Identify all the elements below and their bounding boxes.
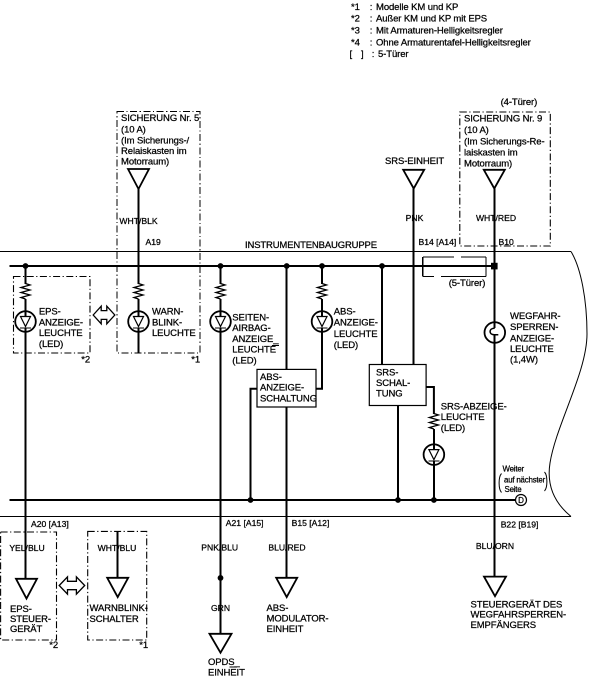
resistor ABS-ANZEIGE [318,284,327,300]
wire EPS LED down to lower bus [25,328,27,579]
svg-text:(5-Türer): (5-Türer) [449,278,486,289]
svg-text::: : [372,49,375,60]
WEGFAHRSPERREN lamp label [510,311,560,365]
svg-text:5-Türer: 5-Türer [378,49,408,60]
wire SRS box right to SRS-ABZEIGE branch [426,387,434,414]
continuation note (Weiter auf naechster Seite) [499,465,547,494]
WARNBLINK-SCHALTER label [90,603,148,625]
STEUERGERAET DES WEGFAHRSPERREN-EMPFAENGERS label [471,599,567,631]
svg-text::: : [370,14,373,25]
fuse box F9 (dash-dot) [460,112,551,246]
svg-text:*3: *3 [351,26,360,37]
wire SRS-ABZEIGE LED to lower bus [433,461,435,500]
instrument cluster bottom border [0,516,571,518]
wire resistor to LED [433,429,435,450]
svg-text:ANZEIGE-: ANZEIGE- [510,334,554,345]
svg-text::: : [370,2,373,13]
SEITEN-AIRBAG label [232,313,279,367]
svg-text:BLINK-: BLINK- [152,317,182,328]
junction dot OPDS [218,575,224,581]
svg-text:(4-Türer): (4-Türer) [501,97,538,108]
upper bus [10,265,496,267]
svg-text:SEITEN-: SEITEN- [232,313,269,324]
SRS-ABZEIGE label [441,401,507,434]
svg-text:]: ] [361,49,364,60]
svg-text:SPERREN-: SPERREN- [510,322,558,333]
svg-text:LEUCHTE: LEUCHTE [232,345,276,356]
junction dot SEITEN-AIRBAG [218,263,224,269]
wire bus to ABS-ANZEIGE-SCHALTUNG box [286,266,288,369]
svg-text::: : [370,37,373,48]
EPS-ANZEIGE-LEUCHTE label [39,307,83,350]
svg-text:INSTRUMENTENBAUGRUPPE: INSTRUMENTENBAUGRUPPE [245,240,377,251]
svg-text:Relaiskasten im: Relaiskasten im [121,146,187,157]
svg-text:B10: B10 [499,237,515,247]
svg-text:GERÄT: GERÄT [10,624,43,635]
svg-text:PNK/BLU: PNK/BLU [201,543,238,553]
LED SRS-ABZEIGE [424,444,445,465]
svg-text:WHT/RED: WHT/RED [476,213,516,223]
svg-text:ANZEIGE_: ANZEIGE_ [232,334,279,345]
svg-text:EPS-: EPS- [39,307,61,318]
svg-text:(LED): (LED) [441,423,465,434]
OPDS connector triangle [210,634,232,653]
svg-text:*2: *2 [81,355,90,366]
svg-text:B14 [A14]: B14 [A14] [419,237,457,247]
svg-text:LEUCHTE: LEUCHTE [334,329,378,340]
wire ABS box bottom to B15 [286,407,288,578]
wire bus to SEITEN resistor [220,266,222,284]
svg-text:(10 A): (10 A) [121,125,146,136]
fuse F9 label [464,114,545,170]
wire fuse F5 to bus [138,189,140,284]
WARN-BLINK-LEUCHTE label [152,307,196,340]
svg-text:(Im Sicherungs-Re-: (Im Sicherungs-Re- [464,137,545,148]
svg-text:Motorraum): Motorraum) [464,159,512,170]
resistor WARN-BLINK [134,284,143,300]
ABS-ANZEIGE-SCHALTUNG box [257,369,316,407]
junction dot ABS box left wire [248,497,254,503]
svg-text:Ohne Armaturentafel-Helligkeit: Ohne Armaturentafel-Helligkeitsregler [376,37,531,48]
svg-text:LEUCHTE: LEUCHTE [510,344,554,355]
OPDS EINHEIT label [208,657,245,678]
junction dot ABS box feed [284,263,290,269]
svg-text:B22 [B19]: B22 [B19] [501,520,539,530]
wire WARN LED to box bottom [138,328,140,353]
fuse box F5 (dash-dot) [117,112,200,354]
interchange arrow bottom [59,577,84,594]
interchange arrow top [93,306,115,324]
svg-text:GRN: GRN [211,603,230,613]
legend note block [350,2,531,60]
WARNBLINK connector triangle [107,578,128,597]
svg-text:(LED): (LED) [39,339,63,350]
wire resistor to LED [220,299,222,317]
ABS-MODULATOR-EINHEIT label [267,603,329,635]
junction square B10 [491,263,498,270]
svg-text:WARNBLINK-: WARNBLINK- [90,603,148,614]
svg-text:(LED): (LED) [232,355,256,366]
svg-text:*2: *2 [49,640,58,651]
EPS-STEUERGERAET connector triangle [16,579,37,599]
wire fuse F9 to bus (B10) [493,189,495,267]
wire SRS-EINHEIT to SRS-SCHALTUNG (crosses bus) [413,189,415,365]
junction dot EPS [23,263,29,269]
wire ABS box left to lower bus [251,389,258,500]
junction dot SRS-ABZEIGE wire [431,497,437,503]
svg-text:ABS-: ABS- [267,603,289,614]
svg-text:WHT/BLK: WHT/BLK [119,216,157,226]
immobilizer receiver connector triangle [484,577,506,597]
fuse F5 label [121,113,199,168]
ABS-MODULATOR connector triangle [276,578,297,597]
svg-text:SICHERUNG Nr. 9: SICHERUNG Nr. 9 [464,114,542,125]
svg-text:Seite: Seite [505,485,523,494]
wire SRS box bottom to lower bus [397,406,399,501]
junction dot ABS LED [319,263,325,269]
svg-text:WARN-: WARN- [152,307,183,318]
wire resistor to LED [25,299,27,317]
svg-text:EINHEIT: EINHEIT [208,667,245,678]
svg-text:WEGFAHR-: WEGFAHR- [510,311,560,322]
svg-text:ANZEIGE-: ANZEIGE- [39,317,83,328]
svg-text:B15 [A12]: B15 [A12] [292,518,330,528]
LED ABS-ANZEIGE [312,311,333,332]
fuse F9 connector triangle [484,170,505,189]
svg-text:SRS-ABZEIGE-: SRS-ABZEIGE- [441,401,507,412]
EPS-STEUERGERAET label [10,604,51,635]
lower bus [10,499,516,501]
immobilizer indicator bulb [485,322,506,343]
svg-text:MODULATOR-: MODULATOR- [267,614,329,625]
wire bus to EPS resistor [25,266,27,284]
wire WARNBLINK box top to triangle [117,531,119,577]
svg-text:auf nächster: auf nächster [504,475,546,484]
svg-text:*1: *1 [191,355,200,366]
ABS-ANZEIGE-LEUCHTE label [334,306,378,351]
svg-text:BLU/RED: BLU/RED [268,543,305,553]
svg-text:Motorraum): Motorraum) [121,157,169,168]
wire B10 bus to immobilizer lamp and B22 [493,266,495,577]
torn page edge curve [549,252,587,517]
svg-text:LEUCHTE: LEUCHTE [152,328,196,339]
svg-text:(Im Sicherungs-/: (Im Sicherungs-/ [121,136,190,147]
svg-text:*4: *4 [351,37,360,48]
svg-text:AIRBAG-: AIRBAG- [232,323,270,334]
ABS-ANZEIGE-SCHALTUNG label [260,372,317,404]
svg-text:SICHERUNG Nr. 5: SICHERUNG Nr. 5 [121,113,199,124]
wire SEITEN LED down to lower bus and A21 [220,328,222,634]
LED SEITEN-AIRBAG [210,311,231,332]
svg-text:WEGFAHRSPERREN-: WEGFAHRSPERREN- [471,609,567,620]
svg-text:EMPFÄNGERS: EMPFÄNGERS [471,620,537,631]
WARNBLINK-SCHALTER box (dash-dot) [88,531,147,640]
svg-text::: : [370,26,373,37]
SRS-SCHALTUNG label [376,367,410,399]
junction dot SRS box bottom wire [395,497,401,503]
svg-text:ABS-: ABS- [260,372,282,383]
svg-text:*1: *1 [351,2,360,13]
svg-text:Weiter: Weiter [503,465,525,474]
junction dot SRS box feed [379,263,385,269]
svg-text:SRS-EINHEIT: SRS-EINHEIT [385,156,444,167]
EPS-STEUERGERAET box (dash-dot) [1,532,57,640]
SRS-SCHALTUNG box [369,365,426,406]
svg-text:laiskasten im: laiskasten im [464,148,518,159]
svg-text:(10 A): (10 A) [464,125,489,136]
LED EPS [15,311,36,332]
SRS-EINHEIT connector triangle [403,170,424,189]
svg-text:D: D [518,496,524,505]
EPS option box (dash-dot) [14,277,91,354]
svg-text:SCHALTUNG: SCHALTUNG [260,393,317,404]
svg-text:A19: A19 [146,237,162,247]
svg-text:*1: *1 [139,640,148,651]
svg-text:SRS-: SRS- [376,367,398,378]
svg-text:Außer KM und KP mit EPS: Außer KM und KP mit EPS [376,14,487,25]
wire resistor to LED [138,299,140,317]
wire bus to ABS resistor [321,266,323,284]
svg-text:ANZEIGE-: ANZEIGE- [260,382,304,393]
svg-text:SCHALTER: SCHALTER [90,614,139,625]
resistor EPS [21,284,30,300]
wire bus to SRS-SCHALTUNG box [381,266,383,365]
svg-text:(LED): (LED) [334,340,358,351]
svg-text:TUNG: TUNG [376,388,403,399]
node D (to next page) [516,495,527,506]
svg-text:ANZEIGE-: ANZEIGE- [334,318,378,329]
svg-text:LEUCHTE: LEUCHTE [441,412,485,423]
svg-text:BLU/ORN: BLU/ORN [476,541,514,551]
resistor SRS-ABZEIGE [429,414,438,430]
svg-text:PNK: PNK [406,213,424,223]
svg-text:SCHAL-: SCHAL- [376,378,410,389]
svg-text:EINHEIT: EINHEIT [267,624,304,635]
svg-text:A21 [A15]: A21 [A15] [226,518,264,528]
svg-text:LEUCHTE: LEUCHTE [39,328,83,339]
svg-text:ABS-: ABS- [334,306,356,317]
resistor SEITEN-AIRBAG [216,284,225,300]
svg-text:Mit Armaturen-Helligkeitsregle: Mit Armaturen-Helligkeitsregler [376,26,503,37]
fuse F5 connector triangle [128,169,149,189]
svg-text:A20 [A13]: A20 [A13] [31,519,69,529]
(5-Türer) dashed box [423,257,486,276]
instrument cluster top border [0,251,571,253]
svg-text:YEL/BLU: YEL/BLU [9,543,44,553]
svg-text:Modelle KM und KP: Modelle KM und KP [376,2,458,13]
LED WARN-BLINK [128,311,149,332]
svg-text:(1,4W): (1,4W) [510,355,538,366]
wire ABS LED down then left into box [316,328,322,389]
wire resistor to LED [321,299,323,317]
svg-text:*2: *2 [351,14,360,25]
